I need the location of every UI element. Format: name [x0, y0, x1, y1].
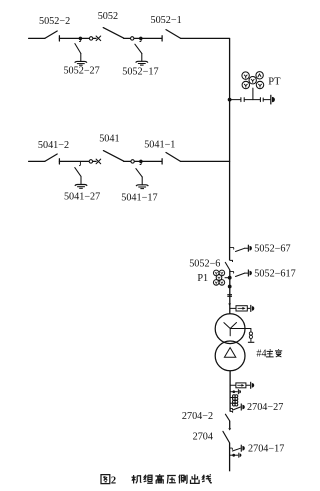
wire PT drop	[252, 88, 254, 99]
fuse PT 2	[260, 98, 263, 102]
disconnector 5052-67 blade	[236, 248, 245, 251]
disconnector 2704-27 blade	[233, 407, 241, 410]
node junction 5041-17	[139, 160, 143, 164]
disconnector 5052-2 contact tick	[58, 36, 60, 41]
disconnector 5041-2 contact tick	[58, 159, 60, 164]
contact hook 5052-6	[230, 260, 233, 262]
wire row1 to bus	[181, 37, 230, 39]
svg-text:2704−17: 2704−17	[248, 444, 284, 455]
wire row1 segment A	[59, 37, 89, 39]
ground 5052-27	[75, 61, 87, 65]
breaker 5052 contact X	[96, 36, 101, 41]
wire bus segment 2704-2 to tip	[229, 421, 231, 428]
node junction arrester 1	[228, 304, 231, 306]
disconnector 5052-2 blade	[45, 31, 57, 38]
earthing switch 5052-17	[135, 44, 142, 61]
svg-text:5052−17: 5052−17	[122, 66, 158, 77]
neutral ground bar	[248, 341, 254, 343]
caption glyph 组	[144, 475, 153, 484]
node PT junction	[228, 98, 232, 102]
svg-text:5052−1: 5052−1	[150, 15, 181, 26]
terminal 2704-17	[241, 445, 245, 452]
terminal 5052-617	[248, 270, 252, 277]
terminal 2704-27	[241, 404, 245, 411]
wire P1 link	[225, 277, 230, 279]
svg-text:5052−27: 5052−27	[63, 65, 99, 76]
wire main bus upper	[229, 38, 231, 260]
surge arrester 2	[236, 383, 246, 388]
svg-text:5052: 5052	[98, 11, 118, 22]
caption glyph 图	[101, 475, 110, 484]
contact hook 2704-2	[230, 411, 233, 412]
contact hook 5052-617	[230, 271, 234, 273]
svg-text:PT: PT	[268, 77, 281, 88]
svg-text:5041−27: 5041−27	[64, 192, 100, 203]
wire arrester 1	[230, 307, 251, 309]
svg-text:5041−17: 5041−17	[121, 192, 157, 203]
wire row2 to bus	[181, 160, 230, 162]
wire row1 segment D	[134, 37, 162, 39]
svg-text:P1: P1	[197, 273, 208, 284]
wire neutral branch	[230, 329, 251, 342]
disconnector 5041-1 contact tick	[161, 159, 163, 164]
svg-text:5041−1: 5041−1	[144, 140, 175, 151]
breaker 5052 blade	[103, 28, 123, 38]
wire 5052-617	[245, 272, 248, 274]
transformer #4 Y symbol	[224, 323, 237, 336]
breaker 5052 right contact circle	[131, 37, 134, 40]
disconnector 2704-17 blade	[232, 448, 240, 451]
breaker 5041 left contact circle	[89, 160, 92, 163]
transformer #4 delta symbol	[224, 348, 235, 358]
svg-text:#4: #4	[256, 348, 266, 359]
ground 5041-27	[75, 185, 87, 189]
svg-text:5052−67: 5052−67	[254, 244, 290, 255]
svg-text:5052−617: 5052−617	[254, 268, 295, 279]
disconnector 5041-2 blade	[45, 154, 57, 161]
contact hook 5052-17	[140, 39, 142, 41]
svg-text:5041−2: 5041−2	[38, 140, 69, 151]
wire CT cluster 1	[230, 397, 233, 399]
earthing switch 5041-17	[136, 169, 142, 185]
neutral contact circles	[249, 332, 252, 335]
wire PT tap c	[264, 99, 270, 101]
disconnector 5052-1 blade	[166, 30, 181, 39]
contact hook 2704-17	[230, 448, 233, 449]
contact hook 5052-27	[79, 39, 81, 41]
contact tip 2704	[228, 428, 231, 430]
wire row2 segment C	[124, 160, 131, 162]
wire row2 segment B	[93, 160, 97, 162]
svg-text:2: 2	[111, 476, 116, 487]
earthing switch 5041-27	[75, 168, 81, 185]
breaker 5041 right contact circle	[131, 160, 134, 163]
wire row2 left stub	[29, 160, 45, 162]
wire row1 segment B	[93, 37, 96, 39]
glyph 变	[275, 349, 282, 357]
current transformer cluster 1	[233, 395, 238, 401]
disconnector 5052-617 blade	[236, 273, 245, 276]
node P1 junction	[228, 276, 232, 280]
svg-text:2704−2: 2704−2	[182, 411, 213, 422]
node dot tap 1	[232, 390, 235, 393]
svg-text:5041: 5041	[99, 134, 119, 145]
node junction 5052-27	[79, 37, 83, 41]
wire row1 segment C	[124, 37, 131, 39]
voltage transformer PT	[242, 72, 264, 89]
wire row2 segment D	[134, 160, 162, 162]
fuse PT 1	[241, 98, 244, 102]
svg-text:5052−2: 5052−2	[39, 16, 70, 27]
breaker 5041 contact X	[96, 159, 101, 164]
disconnector 2704-2 blade	[225, 414, 229, 421]
disconnector 5052-1 contact tick	[161, 36, 163, 41]
disconnector 5041-1 blade	[166, 153, 181, 162]
node bus dot 2	[228, 285, 232, 289]
wire row1 left stub	[29, 37, 45, 39]
node junction 5052-17	[139, 37, 143, 41]
wire arrester 2	[230, 384, 250, 386]
wire dot tap 2	[230, 454, 239, 456]
terminal 5052-67	[248, 245, 252, 252]
disconnector 5052-6 blade	[225, 262, 230, 270]
contact hook 5052-67	[230, 247, 234, 249]
instrument transformer P1	[213, 270, 224, 285]
wire PT tap a	[230, 99, 241, 101]
caption glyph 侧	[179, 475, 187, 484]
node dot tap 2	[232, 454, 235, 457]
wire 5052-67	[245, 247, 248, 249]
transformer #4 HV winding	[215, 314, 245, 344]
contact hook 5041-17	[140, 162, 142, 164]
wire dot tap 1	[230, 391, 238, 393]
current transformer bars	[227, 295, 232, 297]
caption glyph 高	[155, 474, 164, 484]
caption glyph 机	[132, 475, 142, 484]
wire row2 segment A	[59, 160, 89, 162]
svg-text:5052−6: 5052−6	[189, 259, 220, 270]
wire CT cluster 2	[230, 402, 233, 404]
svg-text:2704−27: 2704−27	[247, 402, 283, 413]
wire main bus lower	[229, 443, 231, 472]
breaker 5041 blade	[103, 151, 123, 162]
terminal dot tap 2	[238, 453, 241, 458]
caption glyph 压	[167, 476, 176, 484]
contact hook 5041-27 tap	[79, 161, 80, 165]
disconnector 2704 blade	[223, 431, 230, 442]
terminal PT	[270, 95, 275, 105]
caption glyph 线	[202, 474, 211, 483]
earthing switch 5052-27	[75, 44, 81, 62]
terminal arrester 1	[250, 305, 254, 312]
caption glyph 出	[191, 474, 200, 483]
ground 5052-17	[136, 61, 148, 65]
current transformer cluster 2	[233, 400, 238, 406]
wire PT tap b	[245, 99, 261, 101]
terminal dot tap 1	[238, 389, 241, 394]
svg-text:2704: 2704	[193, 432, 213, 443]
contact hook 2704-27	[230, 408, 232, 409]
wire main bus middle	[229, 270, 231, 314]
glyph 主	[266, 349, 274, 357]
transformer #4 LV winding	[215, 341, 245, 371]
ground 5041-17	[136, 185, 148, 189]
surge arrester 1	[236, 306, 247, 311]
breaker 5052 left contact circle	[89, 37, 92, 40]
terminal arrester 2	[250, 382, 254, 389]
